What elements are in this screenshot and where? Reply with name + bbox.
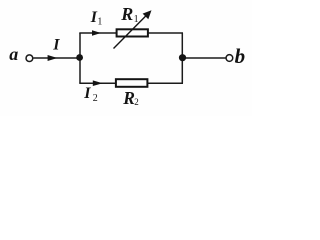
svg-text:1: 1 bbox=[97, 16, 102, 27]
svg-text:R: R bbox=[122, 88, 135, 108]
svg-text:2: 2 bbox=[93, 93, 98, 104]
svg-text:I: I bbox=[83, 85, 91, 102]
svg-text:b: b bbox=[235, 44, 246, 68]
svg-text:a: a bbox=[9, 44, 18, 64]
svg-text:1: 1 bbox=[134, 14, 139, 25]
svg-text:2: 2 bbox=[134, 97, 139, 107]
svg-text:I: I bbox=[52, 36, 60, 53]
svg-text:R: R bbox=[120, 4, 133, 24]
